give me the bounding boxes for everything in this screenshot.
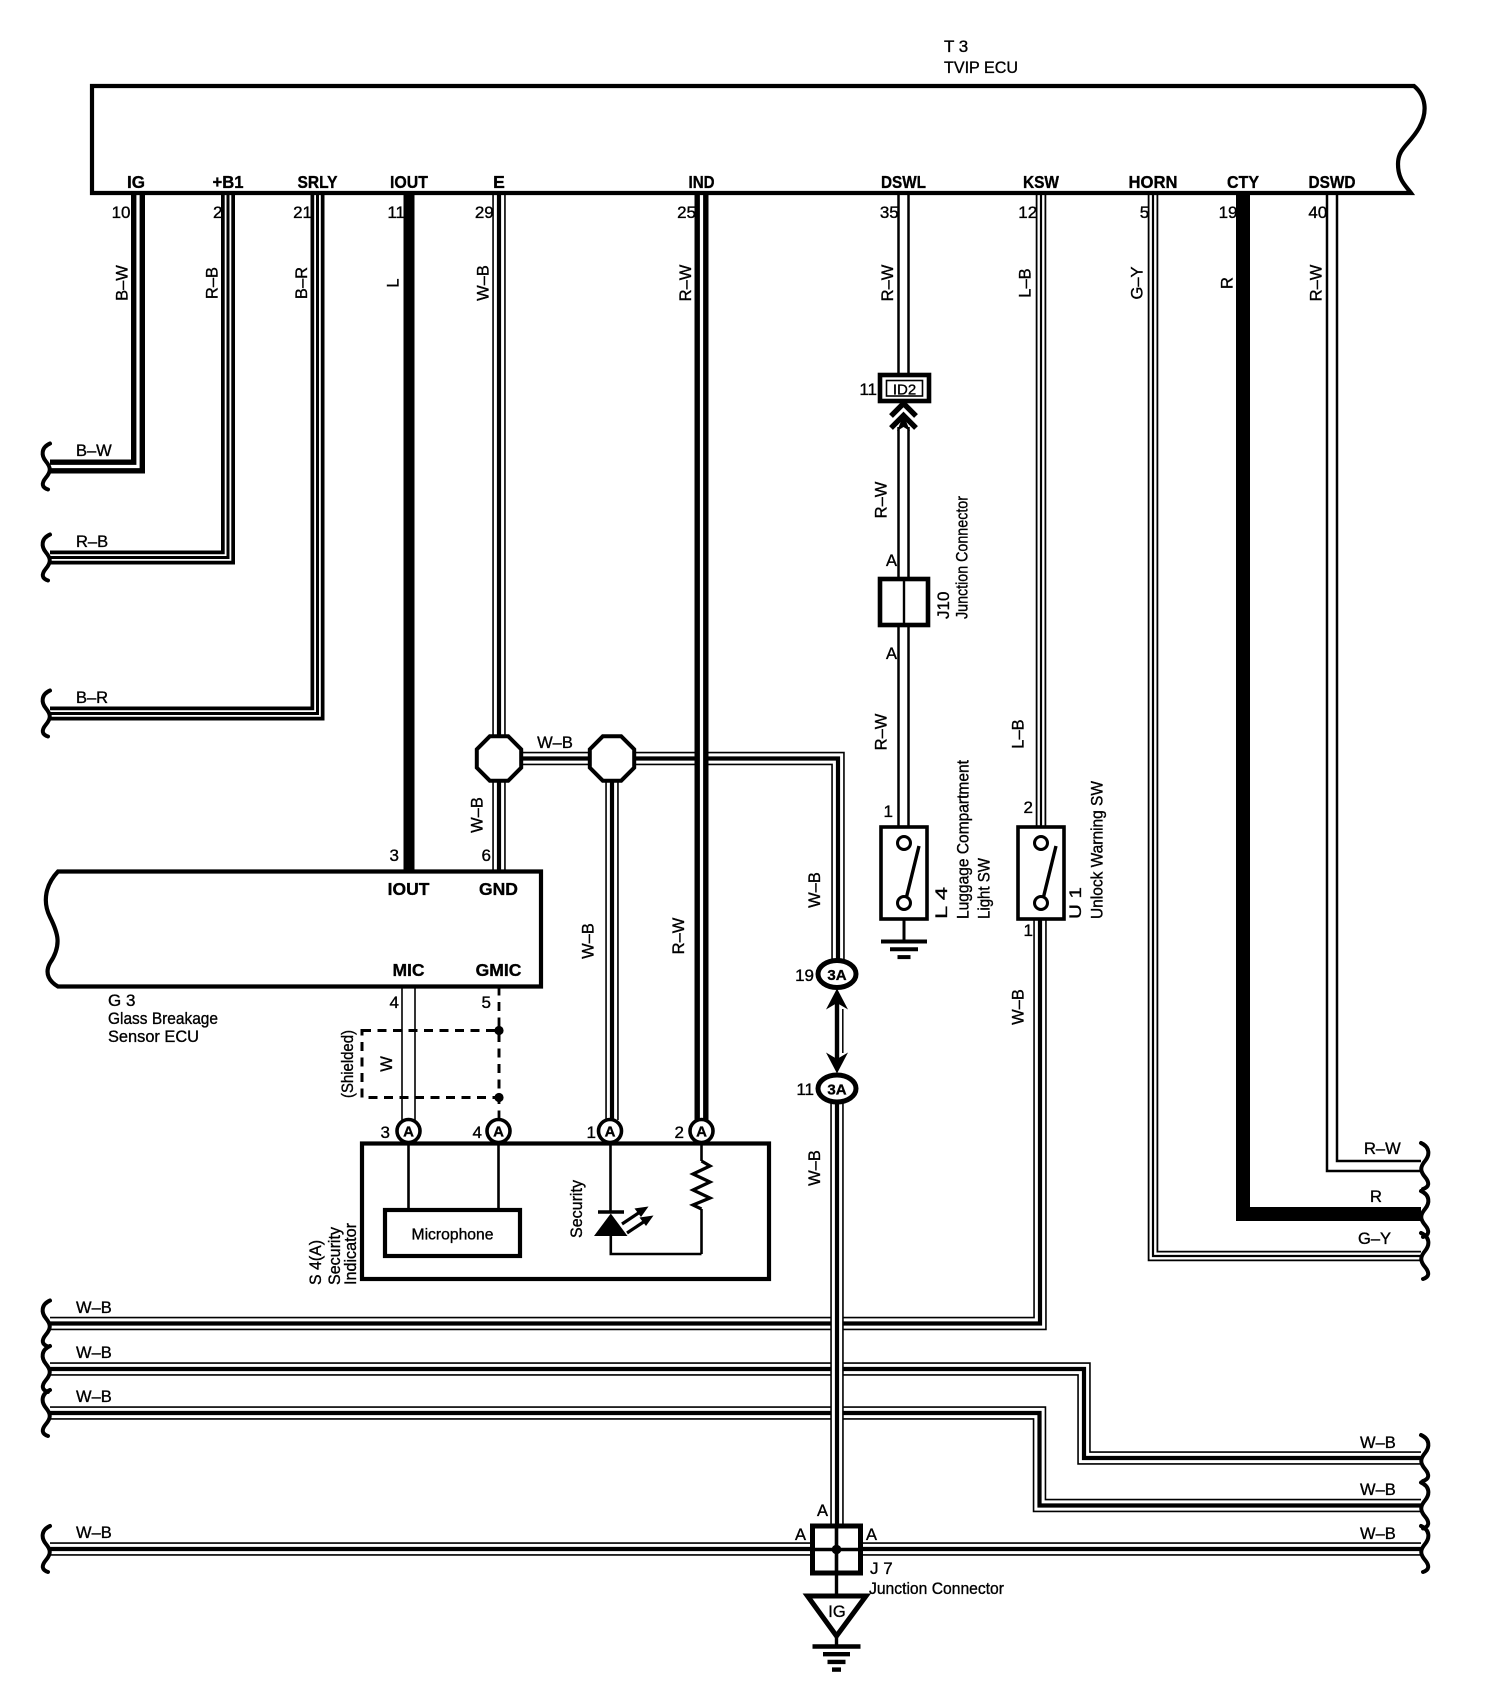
svg-text:L–B: L–B — [1017, 268, 1035, 297]
svg-text:19: 19 — [795, 966, 814, 985]
svg-text:3A: 3A — [827, 967, 846, 984]
svg-text:A: A — [605, 1124, 616, 1141]
wire W-B from octagon junction down to indicator terminal 1 — [605, 759, 619, 1121]
svg-text:U 1: U 1 — [1066, 887, 1085, 919]
svg-text:29: 29 — [475, 203, 494, 222]
svg-text:W–B: W–B — [580, 923, 598, 959]
junction octagon second — [590, 736, 634, 780]
svg-text:Light SW: Light SW — [975, 858, 994, 919]
svg-text:R: R — [1219, 277, 1237, 289]
wire W-B left torn end jog right-down to right torn end (wire2) — [50, 1369, 1421, 1458]
svg-text:G–Y: G–Y — [1358, 1230, 1391, 1248]
terminal circle A pin 3 of S4(A) — [397, 1120, 420, 1143]
junction connector J10 box — [880, 579, 928, 625]
svg-text:A: A — [866, 1526, 877, 1544]
ECU T3 TVIP ECU connector box with torn right edge — [92, 86, 1425, 193]
shield dashed box — [362, 1031, 499, 1098]
svg-text:R–W: R–W — [873, 713, 891, 750]
svg-text:W–B: W–B — [76, 1299, 112, 1317]
torn end wire4 — [43, 1526, 50, 1572]
svg-text:B–W: B–W — [76, 442, 112, 460]
torn end right R — [1421, 1191, 1428, 1237]
svg-text:R–W: R–W — [879, 264, 897, 301]
svg-text:IG: IG — [127, 172, 145, 192]
svg-text:R–W: R–W — [873, 481, 891, 518]
torn end right wire4 — [1421, 1526, 1428, 1572]
svg-text:A: A — [696, 1124, 707, 1141]
double chevron arrow up into ID2 — [891, 404, 916, 417]
wire W-B through J7 junction connector (wire4) — [50, 1542, 1421, 1556]
component S4(A) Security Indicator box — [362, 1144, 769, 1280]
torn end wire1 — [43, 1301, 50, 1347]
svg-text:W–B: W–B — [76, 1344, 112, 1362]
component Microphone box — [385, 1210, 520, 1256]
svg-text:Glass Breakage: Glass Breakage — [108, 1009, 218, 1028]
svg-text:A: A — [886, 552, 897, 570]
torn end R-B — [43, 535, 50, 581]
wire MIC shielded pair — [401, 987, 403, 1121]
svg-text:Security: Security — [567, 1180, 586, 1238]
torn end wire3 — [43, 1390, 50, 1436]
arrow up to 19-3A — [826, 989, 848, 1010]
svg-text:R–W: R–W — [1308, 264, 1326, 301]
svg-text:R–W: R–W — [677, 264, 695, 301]
svg-text:T 3: T 3 — [944, 37, 968, 56]
svg-text:ID2: ID2 — [893, 382, 916, 399]
svg-text:G–Y: G–Y — [1129, 266, 1147, 299]
svg-text:25: 25 — [677, 203, 696, 222]
LED security indicator — [598, 1210, 624, 1214]
svg-text:L: L — [385, 278, 403, 287]
svg-text:10: 10 — [112, 203, 131, 222]
connector ID2 box — [880, 375, 929, 401]
wire terminal1 to LED — [609, 1144, 612, 1213]
wire GMIC shield drain dashed — [498, 987, 501, 1121]
resistor zigzag — [693, 1161, 710, 1209]
svg-text:A: A — [886, 645, 897, 663]
svg-text:Junction Connector: Junction Connector — [869, 1579, 1004, 1598]
wire W-B from 11-3A connector down to J7 — [830, 1102, 844, 1549]
connector 11 (3A) oval — [818, 1075, 856, 1102]
torn end B-W — [43, 444, 50, 490]
wire terminal3 to microphone — [407, 1144, 410, 1211]
svg-text:GMIC: GMIC — [476, 960, 522, 980]
svg-text:(Shielded): (Shielded) — [339, 1030, 357, 1098]
svg-text:2: 2 — [675, 1123, 684, 1142]
ground symbol below L4 — [881, 940, 927, 944]
torn end wire2 — [43, 1346, 50, 1392]
svg-text:+B1: +B1 — [213, 172, 244, 192]
svg-text:11: 11 — [859, 380, 877, 399]
svg-text:CTY: CTY — [1227, 172, 1259, 192]
svg-text:TVIP ECU: TVIP ECU — [944, 58, 1018, 77]
svg-text:12: 12 — [1018, 203, 1037, 222]
connector 19 (3A) oval — [818, 961, 856, 988]
svg-text:W–B: W–B — [806, 872, 824, 908]
wire terminal2 to resistor — [700, 1144, 703, 1162]
wire DSWD pin40 R-W from T3 to right torn end — [1332, 191, 1421, 1166]
svg-text:IND: IND — [689, 172, 715, 192]
terminal circle A pin 4 of S4(A) — [487, 1120, 510, 1143]
wire E pin29 W-B from T3 through junction to G3 GND — [492, 191, 506, 871]
svg-text:2: 2 — [1024, 798, 1033, 817]
svg-text:Luggage Compartment: Luggage Compartment — [954, 760, 973, 919]
svg-text:11: 11 — [387, 203, 405, 222]
svg-text:5: 5 — [1140, 203, 1149, 222]
ECU G3 Glass Breakage Sensor ECU box with torn left edge — [46, 872, 541, 987]
svg-text:Microphone: Microphone — [412, 1227, 494, 1244]
wire DSWL pin35 R-W from T3 to ID2 — [897, 191, 910, 377]
wire IOUT pin11 L from T3 to G3 — [404, 191, 415, 871]
torn end right wire2 — [1421, 1435, 1428, 1481]
svg-text:40: 40 — [1308, 203, 1327, 222]
arrow down to 11-3A — [826, 1053, 848, 1074]
torn end right R-W — [1421, 1143, 1428, 1189]
wire HORN pin5 G-Y from T3 to right torn end — [1153, 191, 1421, 1256]
svg-text:35: 35 — [880, 203, 899, 222]
svg-text:Junction Connector: Junction Connector — [953, 496, 972, 619]
svg-text:IOUT: IOUT — [390, 172, 428, 192]
wire IG pin10 B-W from T3 to torn end — [50, 191, 138, 467]
wire LED to resistor bottom — [611, 1236, 702, 1254]
torn end right G-Y — [1421, 1233, 1428, 1279]
switch L4 Luggage Compartment Light SW — [881, 827, 927, 919]
svg-text:R–B: R–B — [204, 267, 222, 299]
wire W-B from U1 pin1 down and left to torn end (wire1) — [50, 919, 1040, 1324]
svg-text:4: 4 — [390, 993, 399, 1012]
svg-text:R–B: R–B — [76, 533, 108, 551]
wire resistor to bottom rail — [700, 1209, 703, 1254]
svg-text:W–B: W–B — [806, 1150, 824, 1186]
svg-text:S 4(A): S 4(A) — [306, 1240, 325, 1285]
svg-text:B–R: B–R — [293, 267, 311, 299]
svg-text:W–B: W–B — [1360, 1525, 1396, 1543]
svg-text:A: A — [493, 1124, 504, 1141]
shield junction dot top — [494, 1026, 503, 1035]
svg-text:W–B: W–B — [1360, 1434, 1396, 1452]
terminal circle A pin 1 of S4(A) — [599, 1120, 622, 1143]
svg-text:SRLY: SRLY — [298, 172, 338, 192]
svg-text:W: W — [378, 1056, 396, 1072]
torn end B-R — [43, 691, 50, 737]
svg-text:Sensor ECU: Sensor ECU — [108, 1027, 199, 1046]
wire KSW pin12 L-B from T3 to U1 switch — [1036, 191, 1047, 829]
wire SRLY pin21 B-R from T3 to torn end — [50, 191, 318, 714]
svg-text:DSWL: DSWL — [881, 172, 926, 192]
svg-text:G 3: G 3 — [108, 991, 135, 1010]
svg-text:W–B: W–B — [475, 265, 493, 301]
svg-text:A: A — [817, 1502, 828, 1520]
svg-text:E: E — [493, 172, 505, 192]
svg-text:R–W: R–W — [1364, 1140, 1401, 1158]
svg-text:W–B: W–B — [469, 797, 487, 833]
svg-text:19: 19 — [1219, 203, 1238, 222]
svg-text:2: 2 — [213, 203, 222, 222]
svg-text:3: 3 — [381, 1123, 390, 1142]
svg-text:W–B: W–B — [1010, 989, 1028, 1025]
wire R-W from arrow to J10 and L4 switch — [897, 427, 910, 829]
svg-text:1: 1 — [884, 802, 893, 821]
wire +B1 pin2 R-B from T3 to torn end — [50, 191, 228, 558]
svg-text:GND: GND — [479, 879, 518, 899]
junction octagon on E wire — [477, 736, 521, 780]
svg-text:W–B: W–B — [76, 1524, 112, 1542]
wire IND pin25 R-W from T3 to indicator terminal 2 — [695, 191, 709, 1120]
svg-text:B–R: B–R — [76, 689, 108, 707]
wire terminal4 to microphone — [497, 1144, 500, 1211]
LED light arrows — [622, 1212, 640, 1224]
wire W-B from octagon junction to 19-3A connector — [612, 759, 838, 962]
svg-text:W–B: W–B — [76, 1388, 112, 1406]
svg-text:W–B: W–B — [537, 734, 573, 752]
svg-text:Unlock Warning SW: Unlock Warning SW — [1088, 781, 1107, 919]
switch U1 Unlock Warning SW — [1018, 827, 1064, 919]
svg-text:5: 5 — [482, 993, 491, 1012]
IG ground triangle — [808, 1596, 867, 1636]
svg-text:DSWD: DSWD — [1309, 172, 1356, 192]
svg-text:A: A — [403, 1124, 414, 1141]
svg-text:J10: J10 — [934, 592, 953, 619]
svg-text:3: 3 — [390, 846, 399, 865]
wire W-B between junction octagons — [499, 752, 612, 766]
svg-text:21: 21 — [293, 203, 312, 222]
terminal circle A pin 2 of S4(A) — [690, 1120, 713, 1143]
svg-text:A: A — [795, 1526, 806, 1544]
wire W-B left torn end jog right-down to right torn end (wire3) — [50, 1413, 1421, 1506]
svg-text:J 7: J 7 — [870, 1559, 893, 1578]
svg-text:W–B: W–B — [1360, 1481, 1396, 1499]
svg-text:MIC: MIC — [392, 960, 424, 980]
torn end right wire3 — [1421, 1483, 1428, 1529]
shield junction dot bottom — [494, 1093, 503, 1102]
svg-text:1: 1 — [1024, 921, 1033, 940]
svg-text:L–B: L–B — [1010, 719, 1028, 748]
svg-text:R–W: R–W — [670, 917, 688, 954]
ground symbol below J7 — [813, 1644, 861, 1648]
svg-text:KSW: KSW — [1023, 172, 1059, 192]
svg-text:R: R — [1370, 1188, 1382, 1206]
svg-text:4: 4 — [473, 1123, 482, 1142]
wire J7 to IG triangle — [835, 1573, 838, 1596]
svg-text:6: 6 — [482, 846, 491, 865]
svg-text:L 4: L 4 — [932, 887, 951, 919]
ground stem of L4 — [903, 919, 906, 940]
svg-text:11: 11 — [796, 1080, 814, 1099]
svg-text:1: 1 — [587, 1123, 596, 1142]
junction connector J7 box — [813, 1526, 861, 1573]
svg-text:3A: 3A — [827, 1082, 846, 1099]
svg-text:IG: IG — [828, 1603, 845, 1621]
ground stem below IG triangle — [835, 1636, 838, 1645]
svg-text:IOUT: IOUT — [388, 879, 430, 899]
svg-text:B–W: B–W — [114, 265, 132, 301]
wire CTY pin19 R solid from T3 to right torn end — [1243, 191, 1421, 1214]
svg-text:HORN: HORN — [1129, 172, 1178, 192]
svg-text:Indicator: Indicator — [341, 1223, 360, 1285]
